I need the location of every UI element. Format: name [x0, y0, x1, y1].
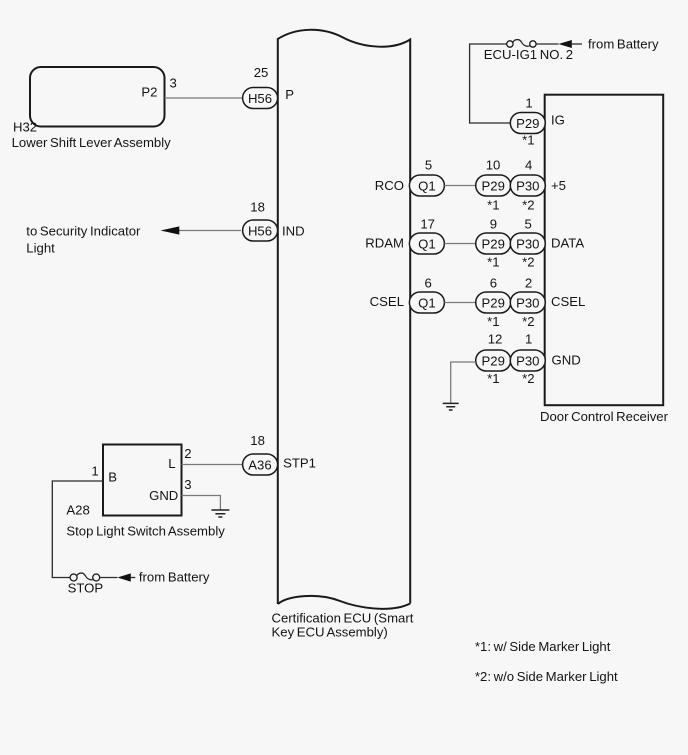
svg-text:*2: *2 — [522, 314, 534, 329]
pin 18 of A36 — [250, 433, 265, 448]
pin 1 of P29 IG — [525, 96, 532, 111]
svg-text:Q1: Q1 — [418, 237, 436, 252]
svg-text:RDAM: RDAM — [365, 236, 404, 251]
svg-text:CSEL: CSEL — [551, 294, 585, 309]
svg-text:*1: *1 — [487, 371, 499, 386]
node RDAM — [365, 236, 404, 251]
svg-text:L: L — [168, 456, 175, 471]
svg-text:6: 6 — [490, 275, 497, 290]
svg-text:*1: w/ Side Marker Light: *1: w/ Side Marker Light — [475, 639, 611, 654]
ground (receiver GND) — [443, 403, 459, 410]
note *1 (CSEL row) — [487, 314, 499, 329]
wire fuse to battery arrow — [536, 40, 582, 48]
wire H32 P2 to H56 — [165, 97, 243, 99]
from Battery label (top) — [588, 37, 659, 52]
note *2 (GND row) — [522, 371, 534, 386]
pin 1 of A28 — [91, 464, 98, 479]
Certification ECU (Smart Key ECU Assembly) body U1 — [272, 30, 414, 640]
svg-text:IND: IND — [282, 223, 305, 238]
svg-text:*1: *1 — [487, 198, 499, 213]
pin 17 of Q1 RDAM — [420, 216, 435, 231]
svg-text:RCO: RCO — [375, 178, 404, 193]
wire P29 GND to ground — [451, 362, 476, 403]
connector P29 (GND row) — [476, 350, 511, 371]
pin 4 of P30 RCO — [525, 158, 532, 173]
svg-text:5: 5 — [425, 158, 432, 173]
svg-text:Light: Light — [26, 241, 55, 256]
connector H56 (P row) — [243, 88, 278, 109]
svg-text:to Security Indicator: to Security Indicator — [26, 224, 141, 239]
svg-text:P30: P30 — [516, 237, 539, 252]
svg-text:25: 25 — [254, 65, 269, 80]
note *2 legend — [475, 669, 618, 684]
svg-text:from Battery: from Battery — [588, 37, 659, 52]
svg-text:H56: H56 — [248, 224, 272, 239]
node P — [285, 87, 294, 102]
svg-text:H56: H56 — [248, 91, 272, 106]
connector P29 (RDAM row) — [476, 233, 511, 254]
wire A28 B through STOP fuse to battery arrow — [52, 481, 103, 578]
connector P29 (RCO row) — [476, 175, 511, 196]
svg-text:P: P — [285, 87, 294, 102]
svg-text:ECU-IG1 NO. 2: ECU-IG1 NO. 2 — [484, 47, 573, 62]
svg-text:IG: IG — [551, 112, 565, 127]
connector A36 — [243, 454, 278, 475]
svg-text:18: 18 — [250, 433, 265, 448]
svg-text:+5: +5 — [551, 178, 566, 193]
wire A28 GND to ground — [182, 496, 221, 510]
Lower Shift Lever Assembly H32 — [12, 67, 172, 150]
connector H56 (IND row) — [243, 220, 278, 241]
Door Control Receiver body — [540, 95, 669, 424]
pin 6 of Q1 CSEL — [425, 275, 432, 290]
svg-text:P2: P2 — [141, 85, 157, 100]
connector Q1 (RCO row) — [409, 175, 444, 196]
svg-text:*2: *2 — [522, 371, 534, 386]
svg-text:P29: P29 — [482, 179, 505, 194]
pin 3 of A28 — [184, 477, 191, 492]
svg-text:STP1: STP1 — [283, 456, 316, 471]
svg-text:6: 6 — [425, 275, 432, 290]
wire from Battery through ECU-IG1 fuse to P29 IG — [470, 44, 511, 123]
pin 10 of P29 RCO — [486, 158, 501, 173]
svg-text:B: B — [108, 470, 117, 485]
wire Q1 to P29 (CSEL) — [444, 302, 475, 304]
wire A28 L to A36 — [182, 464, 243, 466]
pin 12 of P29 GND — [488, 331, 503, 346]
node IND — [282, 223, 305, 238]
note *2 (RCO row) — [522, 198, 534, 213]
svg-text:Q1: Q1 — [418, 296, 436, 311]
svg-text:from Battery: from Battery — [139, 570, 210, 585]
node STP1 — [283, 456, 316, 471]
note *1 (IG row) — [522, 132, 534, 147]
node CSEL (ECU side) — [370, 294, 404, 309]
svg-text:GND: GND — [552, 352, 581, 367]
svg-text:*2: *2 — [522, 198, 534, 213]
svg-text:*2: *2 — [522, 254, 534, 269]
pin 5 of P30 RDAM — [525, 216, 532, 231]
Stop Light Switch Assembly A28 — [66, 445, 225, 539]
svg-text:*1: *1 — [522, 132, 534, 147]
svg-text:A36: A36 — [248, 458, 271, 473]
node +5 — [551, 178, 566, 193]
svg-text:1: 1 — [91, 464, 98, 479]
wire STOP fuse to battery arrow — [100, 573, 136, 581]
from Battery label (bottom) — [139, 570, 210, 585]
svg-text:P30: P30 — [516, 296, 539, 311]
pin 6 of P29 CSEL — [490, 275, 497, 290]
wire Q1 to P29 (RCO) — [444, 185, 475, 187]
svg-text:P30: P30 — [516, 179, 539, 194]
svg-text:H32: H32 — [13, 120, 37, 135]
svg-text:CSEL: CSEL — [370, 294, 404, 309]
svg-text:17: 17 — [420, 216, 435, 231]
svg-text:Lower Shift Lever Assembly: Lower Shift Lever Assembly — [12, 135, 172, 150]
svg-text:3: 3 — [184, 477, 191, 492]
svg-text:*1: *1 — [487, 254, 499, 269]
pin 2 of P30 CSEL — [525, 275, 532, 290]
svg-text:9: 9 — [490, 216, 497, 231]
svg-text:*1: *1 — [487, 314, 499, 329]
wire Q1 to P29 (RDAM) — [444, 243, 475, 245]
svg-text:P29: P29 — [516, 116, 539, 131]
note *2 (CSEL row) — [522, 314, 534, 329]
svg-text:Stop Light Switch Assembly: Stop Light Switch Assembly — [66, 523, 225, 538]
svg-text:Certification ECU (Smart: Certification ECU (Smart — [272, 611, 414, 626]
node CSEL (receiver side) — [551, 294, 585, 309]
svg-text:STOP: STOP — [68, 581, 104, 596]
connector P30 (RDAM row) — [510, 233, 545, 254]
fuse ECU-IG1 NO. 2 — [484, 40, 573, 62]
pin 25 of H56 — [254, 65, 269, 80]
connector P30 (GND row) — [510, 350, 545, 371]
note *1 (RCO row) — [487, 198, 499, 213]
svg-text:18: 18 — [250, 200, 265, 215]
svg-text:3: 3 — [170, 76, 177, 91]
svg-text:4: 4 — [525, 158, 532, 173]
pin 2 of A28 — [184, 446, 191, 461]
pin 9 of P29 RDAM — [490, 216, 497, 231]
svg-text:*2: w/o Side Marker Light: *2: w/o Side Marker Light — [475, 669, 618, 684]
svg-text:DATA: DATA — [551, 236, 584, 251]
connector P30 (RCO row) — [510, 175, 545, 196]
note *1 (GND row) — [487, 371, 499, 386]
connector Q1 (RDAM row) — [409, 233, 444, 254]
svg-text:5: 5 — [525, 216, 532, 231]
fuse STOP — [68, 573, 104, 595]
node RCO — [375, 178, 404, 193]
wire IND to Security Indicator Light with arrow — [161, 226, 242, 234]
pin 1 of P30 GND — [525, 331, 532, 346]
node IG — [551, 112, 565, 127]
svg-text:Door Control Receiver: Door Control Receiver — [540, 409, 669, 424]
note *1 legend — [475, 639, 611, 654]
note *2 (RDAM row) — [522, 254, 534, 269]
svg-text:GND: GND — [149, 488, 178, 503]
node GND (receiver) — [552, 352, 581, 367]
svg-text:1: 1 — [525, 331, 532, 346]
pin 5 of Q1 RCO — [425, 158, 432, 173]
svg-text:P29: P29 — [482, 237, 505, 252]
svg-text:2: 2 — [184, 446, 191, 461]
connector P29 (IG row) — [510, 113, 545, 134]
pin 18 of H56 — [250, 200, 265, 215]
ground (stop light switch) — [211, 510, 229, 517]
connector Q1 (CSEL row) — [409, 292, 444, 313]
connector P29 (CSEL row) — [476, 292, 511, 313]
svg-text:P29: P29 — [482, 296, 505, 311]
svg-text:A28: A28 — [66, 503, 89, 518]
pin 3 of P2 — [170, 76, 177, 91]
svg-text:Key ECU Assembly): Key ECU Assembly) — [272, 625, 388, 640]
svg-text:Q1: Q1 — [418, 179, 436, 194]
svg-text:10: 10 — [486, 158, 501, 173]
node DATA — [551, 236, 584, 251]
svg-text:P29: P29 — [482, 354, 505, 369]
connector P30 (CSEL row) — [510, 292, 545, 313]
svg-text:1: 1 — [525, 96, 532, 111]
note *1 (RDAM row) — [487, 254, 499, 269]
svg-text:2: 2 — [525, 275, 532, 290]
to Security Indicator Light label — [26, 224, 141, 256]
svg-text:P30: P30 — [516, 354, 539, 369]
svg-text:12: 12 — [488, 331, 503, 346]
